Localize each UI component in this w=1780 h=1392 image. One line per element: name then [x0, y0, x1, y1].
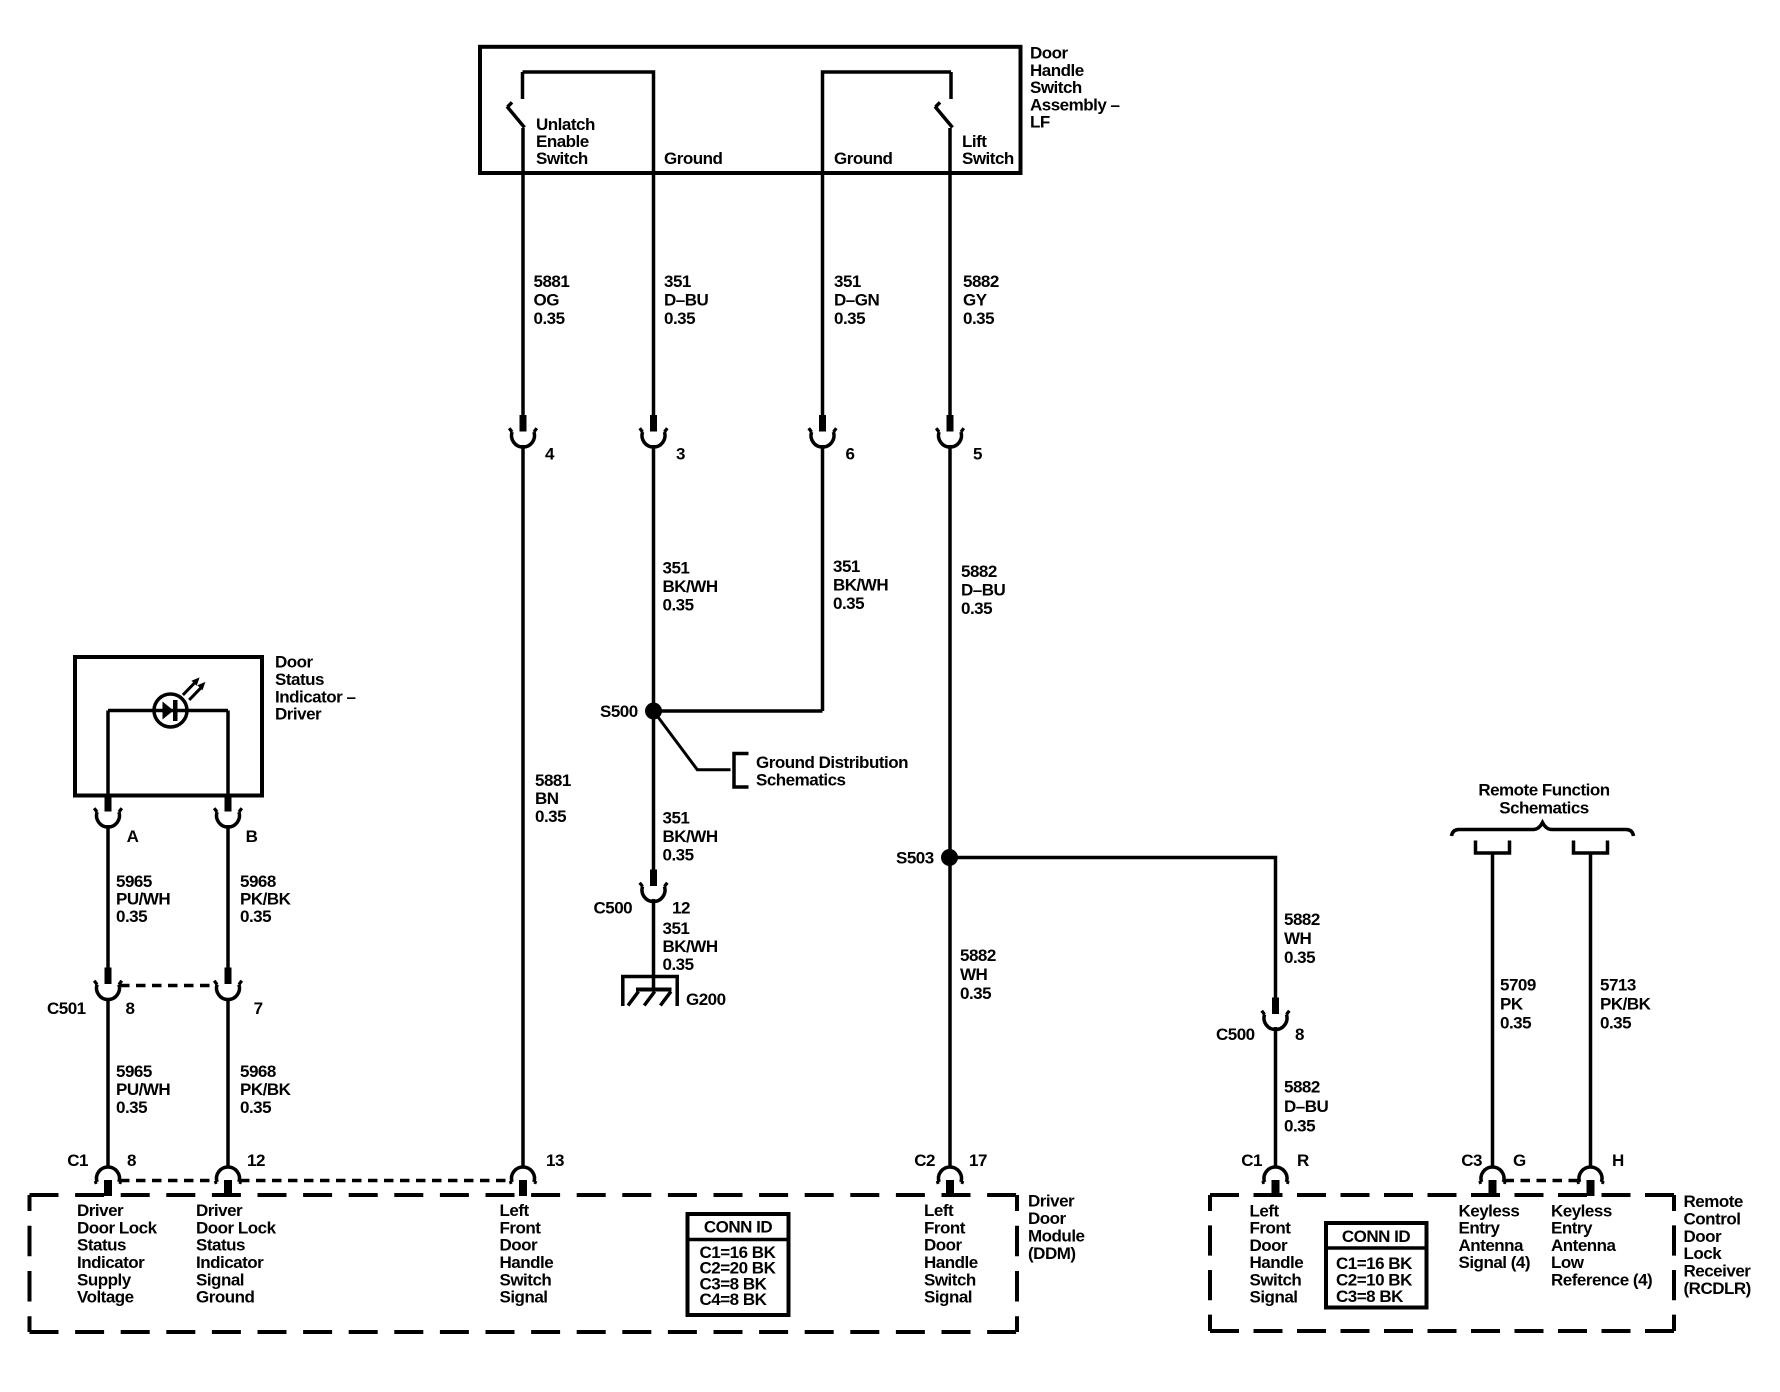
svg-text:Door Lock: Door Lock — [77, 1218, 158, 1237]
svg-text:0.35: 0.35 — [663, 596, 694, 615]
label: wire 5965 PU/WH 0.35 (lower) — [116, 1062, 170, 1117]
svg-text:0.35: 0.35 — [664, 309, 695, 328]
connector DDM C1 pin 13 — [509, 1151, 564, 1196]
wire: 5709 PK antenna to C3 pin G — [1491, 853, 1495, 1168]
label: Remote Control Door Lock Receiver (RCDLR) — [1684, 1192, 1752, 1298]
wire: lift switch to pin 5 — [948, 128, 952, 416]
svg-text:8: 8 — [126, 999, 135, 1018]
svg-text:Switch: Switch — [1250, 1270, 1302, 1289]
wire: 351 BK/WH from pin 3 to C500 pin 12 — [652, 445, 656, 870]
svg-text:5881: 5881 — [535, 771, 571, 790]
svg-text:5882: 5882 — [960, 946, 996, 965]
svg-text:Indicator: Indicator — [196, 1253, 264, 1272]
svg-text:G: G — [1513, 1151, 1526, 1170]
svg-text:B: B — [246, 827, 258, 846]
svg-text:BN: BN — [535, 789, 559, 808]
label: wire 5965 PU/WH 0.35 (upper) — [116, 872, 170, 926]
svg-text:Door: Door — [1028, 1209, 1067, 1228]
label: wire 5882 GY 0.35 — [963, 272, 999, 328]
svg-text:5713: 5713 — [1600, 976, 1636, 995]
svg-text:Door: Door — [1250, 1236, 1289, 1255]
svg-text:Driver: Driver — [275, 705, 322, 724]
svg-text:351: 351 — [663, 809, 690, 828]
svg-text:0.35: 0.35 — [961, 599, 992, 618]
callout: Ground Distribution Schematics — [655, 713, 908, 790]
svg-text:5882: 5882 — [963, 272, 999, 291]
svg-text:Driver: Driver — [77, 1201, 124, 1220]
svg-text:Schematics: Schematics — [1499, 799, 1589, 818]
label: wire 5882 WH 0.35 (branch) — [1284, 910, 1320, 967]
label: wire 351 D-GN 0.35 — [834, 272, 879, 328]
svg-text:Supply: Supply — [77, 1270, 132, 1289]
wire: 5965 PU/WH C501 to DDM pin 8 — [106, 998, 110, 1168]
svg-text:C500: C500 — [594, 899, 633, 918]
svg-text:D–BU: D–BU — [664, 291, 709, 310]
svg-text:Indicator –: Indicator – — [275, 687, 356, 706]
svg-text:Signal: Signal — [1250, 1288, 1298, 1307]
label: wire 351 BK/WH 0.35 (below C500) — [663, 919, 718, 974]
wire: 5965 PU/WH pin A to C501 — [106, 825, 110, 968]
svg-text:Driver: Driver — [196, 1201, 243, 1220]
svg-text:17: 17 — [969, 1151, 987, 1170]
svg-text:Low: Low — [1551, 1253, 1585, 1272]
svg-text:351: 351 — [663, 919, 690, 938]
svg-text:Signal: Signal — [924, 1288, 972, 1307]
svg-text:D–BU: D–BU — [1284, 1097, 1329, 1116]
svg-text:BK/WH: BK/WH — [663, 577, 718, 596]
connector DDM C1 pin 8 — [67, 1151, 136, 1196]
svg-text:C1: C1 — [1241, 1151, 1262, 1170]
wire: pin 3 ground feed (inner U left) — [523, 72, 654, 416]
svg-text:Status: Status — [77, 1236, 126, 1255]
svg-text:C1: C1 — [67, 1151, 88, 1170]
label: Left Front Door Handle Switch Signal (pin R) — [1250, 1202, 1304, 1307]
svg-text:351: 351 — [833, 557, 860, 576]
svg-text:5968: 5968 — [240, 1062, 276, 1081]
svg-text:Control: Control — [1684, 1209, 1741, 1228]
switch: Lift Switch — [935, 72, 953, 128]
svg-text:0.35: 0.35 — [663, 846, 694, 865]
svg-text:A: A — [127, 827, 139, 846]
label: Left Front Door Handle Switch Signal (pin 13) — [500, 1201, 554, 1307]
box: Remote Control Door Lock Receiver (RCDLR), dashed — [1210, 1195, 1674, 1331]
svg-text:S500: S500 — [600, 702, 638, 721]
svg-text:Front: Front — [1250, 1219, 1292, 1238]
svg-text:Reference (4): Reference (4) — [1551, 1270, 1652, 1289]
svg-text:Status: Status — [275, 670, 324, 689]
svg-text:0.35: 0.35 — [963, 309, 994, 328]
dashed link: RCDLR C3 pins G-H — [1505, 1179, 1579, 1183]
wire: 5968 PK/BK pin B to C501 — [226, 825, 230, 968]
connector pin 4 (door handle switch assembly) — [509, 415, 555, 464]
splice S503 — [896, 849, 958, 868]
label: Remote Function Schematics — [1478, 781, 1609, 818]
label: wire 5968 PK/BK 0.35 (lower) — [240, 1062, 292, 1117]
wire: C500 pin 12 to ground G200 — [652, 899, 656, 989]
svg-text:0.35: 0.35 — [833, 594, 864, 613]
box: Driver Door Module (DDM), dashed — [30, 1195, 1018, 1332]
svg-text:C2: C2 — [914, 1151, 935, 1170]
svg-text:CONN ID: CONN ID — [1342, 1227, 1411, 1246]
svg-text:Left: Left — [1250, 1202, 1280, 1221]
svg-text:H: H — [1612, 1151, 1624, 1170]
svg-text:Door: Door — [1684, 1227, 1723, 1246]
label: wire 351 BK/WH 0.35 (below S500) — [663, 809, 718, 865]
dashed link: DDM C1 pins 12-13 — [240, 1179, 511, 1183]
connector C501 pin 7 — [214, 968, 262, 1019]
svg-text:Door Lock: Door Lock — [196, 1218, 277, 1237]
wire: 351 BK/WH from pin 6 down to splice — [821, 445, 825, 711]
svg-text:Schematics: Schematics — [756, 771, 846, 790]
svg-text:0.35: 0.35 — [240, 907, 271, 926]
svg-text:5882: 5882 — [1284, 910, 1320, 929]
svg-text:Indicator: Indicator — [77, 1253, 145, 1272]
svg-text:Switch: Switch — [962, 149, 1014, 168]
svg-text:BK/WH: BK/WH — [833, 576, 888, 595]
wire: 5968 PK/BK C501 to DDM pin 12 — [226, 998, 230, 1168]
svg-text:0.35: 0.35 — [1284, 1117, 1315, 1136]
label: Driver Door Lock Status Indicator Signal Ground — [196, 1201, 277, 1307]
svg-text:PK/BK: PK/BK — [1600, 995, 1652, 1014]
svg-text:Keyless: Keyless — [1459, 1202, 1520, 1221]
label: Door Handle Switch Assembly - LF — [1030, 44, 1120, 132]
svg-text:Receiver: Receiver — [1684, 1262, 1752, 1281]
box: Door Handle Switch Assembly - LF — [480, 47, 1021, 173]
svg-text:Keyless: Keyless — [1551, 1202, 1612, 1221]
svg-text:Ground: Ground — [834, 149, 892, 168]
svg-text:C4=8 BK: C4=8 BK — [700, 1290, 768, 1309]
label: wire 351 BK/WH 0.35 (above S500 right) — [833, 557, 888, 613]
svg-text:G200: G200 — [686, 990, 726, 1009]
svg-text:Lock: Lock — [1684, 1244, 1723, 1263]
svg-text:Ground: Ground — [664, 149, 722, 168]
svg-text:Front: Front — [500, 1218, 542, 1237]
svg-text:6: 6 — [846, 445, 855, 464]
svg-text:0.35: 0.35 — [534, 309, 565, 328]
svg-text:Left: Left — [924, 1201, 954, 1220]
svg-text:Front: Front — [924, 1218, 966, 1237]
svg-text:Signal: Signal — [196, 1270, 244, 1289]
label: Lift Switch — [962, 132, 1014, 168]
switch: Unlatch Enable Switch — [507, 72, 525, 128]
svg-text:0.35: 0.35 — [1500, 1014, 1531, 1033]
label: wire 351 BK/WH 0.35 (above S500 left) — [663, 559, 718, 615]
svg-text:8: 8 — [127, 1151, 136, 1170]
svg-text:OG: OG — [534, 291, 560, 310]
svg-text:(DDM): (DDM) — [1028, 1244, 1076, 1263]
svg-text:Ground Distribution: Ground Distribution — [756, 753, 908, 772]
svg-text:PK/BK: PK/BK — [240, 1080, 292, 1099]
svg-text:Driver: Driver — [1028, 1192, 1075, 1211]
svg-text:5881: 5881 — [534, 272, 570, 291]
wire: C500 pin 8 to RCDLR C1 pin R — [1274, 1027, 1278, 1168]
svg-text:C500: C500 — [1216, 1025, 1255, 1044]
connector C500 pin 12 — [594, 870, 690, 918]
svg-text:BK/WH: BK/WH — [663, 937, 718, 956]
svg-text:Door: Door — [275, 653, 314, 672]
svg-text:WH: WH — [960, 965, 988, 984]
label: Unlatch Enable Switch — [536, 115, 595, 168]
svg-text:Antenna: Antenna — [1459, 1236, 1525, 1255]
svg-text:Antenna: Antenna — [1551, 1236, 1617, 1255]
wire: 5713 PK/BK antenna to C3 pin H — [1589, 853, 1593, 1168]
svg-text:CONN ID: CONN ID — [704, 1218, 773, 1237]
svg-text:R: R — [1297, 1151, 1309, 1170]
svg-text:Status: Status — [196, 1236, 245, 1255]
svg-text:Switch: Switch — [924, 1270, 976, 1289]
connector RCDLR C3 pin H — [1577, 1151, 1624, 1196]
svg-text:5965: 5965 — [116, 1062, 152, 1081]
svg-text:(RCDLR): (RCDLR) — [1684, 1279, 1751, 1298]
svg-text:7: 7 — [254, 999, 263, 1018]
svg-text:Signal (4): Signal (4) — [1459, 1253, 1531, 1272]
connector DDM C2 pin 17 — [914, 1151, 987, 1196]
label: wire 5881 OG 0.35 — [534, 272, 570, 328]
label: wire 5882 D-BU 0.35 (below C500 pin 8) — [1284, 1078, 1329, 1136]
label: Driver Door Lock Status Indicator Supply Voltage — [77, 1201, 158, 1307]
svg-text:Entry: Entry — [1459, 1219, 1501, 1238]
wire: S503 branch to C500 pin 8 — [950, 858, 1276, 999]
svg-text:Remote: Remote — [1684, 1192, 1743, 1211]
table: RCDLR CONN ID — [1324, 1223, 1429, 1308]
svg-text:4: 4 — [545, 445, 555, 464]
connector RCDLR C3 pin G — [1461, 1151, 1526, 1196]
svg-text:5882: 5882 — [961, 562, 997, 581]
label: wire 5881 BN 0.35 — [535, 771, 571, 826]
svg-text:Handle: Handle — [1030, 61, 1084, 80]
wire: LED loop horizontal — [108, 709, 228, 713]
svg-text:Left: Left — [500, 1201, 530, 1220]
svg-text:12: 12 — [247, 1151, 265, 1170]
label: Door Status Indicator - Driver — [275, 653, 356, 724]
connector pin 5 (door handle switch assembly) — [936, 415, 982, 464]
label: Left Front Door Handle Switch Signal (pin 17) — [924, 1201, 978, 1307]
svg-text:D–BU: D–BU — [961, 581, 1006, 600]
svg-text:WH: WH — [1284, 929, 1312, 948]
svg-text:D–GN: D–GN — [834, 291, 879, 310]
svg-text:Voltage: Voltage — [77, 1288, 134, 1307]
svg-text:351: 351 — [834, 272, 861, 291]
connector C501 pin 8 — [47, 968, 135, 1019]
antenna terminal: keyless entry antenna low reference — [1574, 841, 1608, 854]
wire: 5882 from pin 5 to DDM C2 pin 17 — [948, 445, 952, 1168]
label: Keyless Entry Antenna Low Reference (4) — [1551, 1202, 1652, 1290]
svg-text:Signal: Signal — [500, 1288, 548, 1307]
svg-text:5968: 5968 — [240, 872, 276, 891]
wire: S500 branch — [654, 709, 823, 713]
label: wire 5713 PK/BK 0.35 — [1600, 976, 1652, 1033]
svg-text:8: 8 — [1295, 1025, 1304, 1044]
svg-text:0.35: 0.35 — [240, 1098, 271, 1117]
ground G200 — [621, 977, 726, 1010]
svg-text:351: 351 — [663, 559, 690, 578]
svg-text:Remote Function: Remote Function — [1478, 781, 1609, 800]
svg-text:5: 5 — [973, 445, 982, 464]
wire: unlatch switch to pin 4 — [521, 128, 525, 416]
svg-text:Entry: Entry — [1551, 1219, 1593, 1238]
svg-text:Door: Door — [1030, 44, 1069, 63]
table: DDM CONN ID — [686, 1214, 791, 1315]
svg-text:GY: GY — [963, 291, 988, 310]
svg-text:Switch: Switch — [500, 1270, 552, 1289]
svg-text:Handle: Handle — [500, 1253, 554, 1272]
svg-text:Door: Door — [500, 1236, 539, 1255]
splice S500 — [600, 702, 662, 721]
svg-text:BK/WH: BK/WH — [663, 827, 718, 846]
label: wire 5882 WH 0.35 (below S503) — [960, 946, 996, 1003]
connector RCDLR C1 pin R — [1241, 1151, 1309, 1196]
svg-text:0.35: 0.35 — [116, 1098, 147, 1117]
svg-text:0.35: 0.35 — [535, 807, 566, 826]
brace: remote function schematics — [1452, 823, 1634, 837]
wire: 5881 BN from pin 4 to DDM pin 13 — [521, 445, 525, 1168]
svg-text:PK: PK — [1500, 995, 1524, 1014]
svg-text:C501: C501 — [47, 999, 86, 1018]
antenna terminal: keyless entry antenna signal — [1476, 841, 1510, 854]
svg-text:0.35: 0.35 — [960, 984, 991, 1003]
label: wire 5709 PK 0.35 — [1500, 976, 1536, 1033]
svg-text:0.35: 0.35 — [834, 309, 865, 328]
wire: pin 6 ground feed (inner U right) — [823, 72, 952, 416]
svg-text:351: 351 — [664, 272, 691, 291]
svg-text:5709: 5709 — [1500, 976, 1536, 995]
svg-text:PU/WH: PU/WH — [116, 1080, 170, 1099]
svg-text:PK/BK: PK/BK — [240, 890, 292, 909]
svg-text:LF: LF — [1030, 113, 1050, 132]
connector pin A — [94, 795, 138, 846]
svg-text:13: 13 — [546, 1151, 564, 1170]
svg-text:C3=8 BK: C3=8 BK — [1336, 1287, 1404, 1306]
svg-text:Module: Module — [1028, 1227, 1085, 1246]
dashed link: connector C501 — [120, 984, 216, 988]
svg-text:PU/WH: PU/WH — [116, 890, 170, 909]
connector C500 pin 8 — [1216, 998, 1304, 1045]
svg-text:12: 12 — [672, 899, 690, 918]
connector pin 6 (door handle switch assembly) — [809, 415, 855, 464]
label: wire 5882 D-BU 0.35 (below pin 5) — [961, 562, 1006, 618]
LED: door status indicator lamp — [154, 677, 205, 727]
wire: LED loop right leg — [226, 711, 230, 796]
svg-text:C3: C3 — [1461, 1151, 1482, 1170]
label: wire 5968 PK/BK 0.35 (upper) — [240, 872, 292, 926]
svg-text:5882: 5882 — [1284, 1078, 1320, 1097]
svg-text:0.35: 0.35 — [1600, 1014, 1631, 1033]
svg-text:Assembly –: Assembly – — [1030, 95, 1120, 114]
box: Door Status Indicator - Driver — [75, 657, 262, 796]
svg-text:0.35: 0.35 — [116, 907, 147, 926]
wire: LED loop left leg — [106, 711, 110, 796]
svg-text:Switch: Switch — [1030, 78, 1082, 97]
svg-text:Handle: Handle — [1250, 1253, 1304, 1272]
svg-text:3: 3 — [676, 445, 685, 464]
svg-text:Door: Door — [924, 1236, 963, 1255]
svg-text:Handle: Handle — [924, 1253, 978, 1272]
svg-text:S503: S503 — [896, 849, 934, 868]
connector pin B — [214, 795, 257, 846]
connector pin 3 (door handle switch assembly) — [640, 415, 685, 464]
svg-text:0.35: 0.35 — [1284, 948, 1315, 967]
svg-text:5965: 5965 — [116, 872, 152, 891]
connector DDM C1 pin 12 — [214, 1151, 265, 1196]
svg-text:Ground: Ground — [196, 1288, 254, 1307]
label: Driver Door Module (DDM) — [1028, 1192, 1085, 1264]
svg-text:Switch: Switch — [536, 149, 588, 168]
label: wire 351 D-BU 0.35 — [664, 272, 709, 328]
label: Keyless Entry Antenna Signal (4) — [1459, 1202, 1531, 1273]
dashed link: DDM C1 pins 8-12 — [120, 1179, 216, 1183]
svg-text:0.35: 0.35 — [663, 955, 694, 974]
